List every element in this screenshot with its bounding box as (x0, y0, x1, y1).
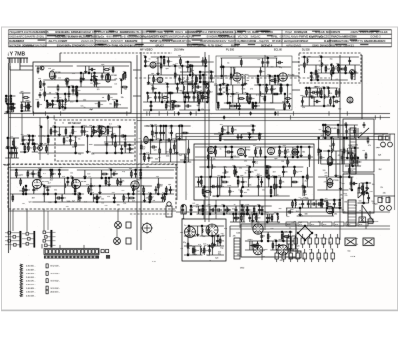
wire drop W345 (279, 177, 281, 187)
wire drop W61 (107, 73, 109, 80)
resistor R119 (255, 148, 257, 155)
wire rail W282 (185, 61, 214, 63)
wire rail W510 (230, 221, 245, 223)
node N295 (339, 207, 340, 208)
wire drop W419 (51, 170, 53, 178)
wire drop W452 (155, 186, 157, 194)
node N57 (29, 135, 30, 136)
wire drop W264 (176, 140, 178, 154)
resistor R163 (140, 170, 142, 177)
wire drop W372 (335, 151, 337, 177)
capacitor C155 (276, 244, 283, 247)
capacitor C143 (210, 208, 217, 211)
node N180 (275, 176, 276, 177)
wire drop W343 (275, 177, 277, 196)
wire drop W93 (100, 127, 102, 136)
capacitor C47 (231, 91, 234, 97)
vacuum tube V20 (326, 206, 340, 214)
node N44 (99, 126, 100, 127)
coil pack (287, 236, 291, 249)
wire drop W112 (33, 144, 35, 152)
node N183 (283, 166, 284, 167)
node N76 (177, 83, 178, 84)
wire drop W84 (69, 136, 71, 145)
resistor R54 (173, 105, 180, 107)
wire drop W469 (241, 206, 243, 214)
capacitor C77 (166, 138, 173, 141)
capacitor C73 (150, 145, 157, 148)
wire drop W169 (217, 103, 219, 109)
wire drop W139 (174, 66, 176, 84)
resistor R131 (292, 151, 299, 153)
node N148 (222, 133, 223, 134)
inductor L23 (225, 170, 226, 174)
wire rail W28 (77, 65, 129, 67)
node N298 (304, 239, 305, 240)
node N65 (150, 109, 151, 110)
node N161 (215, 146, 216, 147)
wire drop W538 (321, 200, 323, 208)
wire drop W491 (217, 236, 219, 246)
node N77 (182, 65, 183, 66)
wire rail W496 (245, 249, 265, 251)
wire drop W170 (219, 85, 221, 94)
wire drop W13 (7, 138, 9, 148)
resistor R149 (20, 178, 22, 185)
capacitor C21 (81, 129, 84, 135)
wire main horizontal bus 1 (9, 113, 390, 115)
node N156 (201, 176, 202, 177)
resistor R50 (165, 102, 167, 109)
wire drop W312 (202, 187, 204, 196)
wire drop W486 (203, 246, 205, 255)
wire drop W423 (64, 178, 66, 194)
wire drop W492 (219, 236, 221, 246)
resistor R121 (265, 166, 272, 168)
resistor R125 (274, 183, 276, 190)
node N146 (184, 161, 185, 162)
wire rail W474 (200, 235, 224, 237)
wire rail W163 (214, 84, 245, 86)
capacitor C24 (105, 142, 108, 148)
wire drop W66 (120, 80, 122, 94)
resistor R81 (304, 61, 306, 68)
wire drop W386 (346, 148, 348, 158)
capacitor C168 (316, 202, 323, 205)
wire drop W328 (240, 187, 242, 196)
node N145 (181, 125, 182, 126)
wire drop W331 (248, 167, 250, 187)
node N139 (160, 125, 161, 126)
capacitor C8 (54, 74, 57, 80)
capacitor C82 (252, 127, 255, 133)
wire drop W462 (197, 206, 199, 214)
resistor R192 (326, 200, 328, 207)
wire rail W527 (286, 207, 342, 209)
wire drop W6 (8, 96, 10, 112)
node N17 (62, 100, 63, 101)
wire drop W438 (110, 170, 112, 178)
capacitor C56 (266, 60, 269, 66)
capacitor C186 (303, 253, 306, 259)
node N244 (133, 193, 134, 194)
wire drop W334 (255, 147, 257, 157)
node N104 (255, 102, 256, 103)
frame output stage box (343, 174, 374, 213)
wire drop W513 (235, 214, 237, 222)
capacitor C109 (332, 142, 335, 148)
resistor R171 (202, 206, 204, 213)
node N218 (25, 185, 26, 186)
vacuum tube V12 (268, 148, 275, 155)
wire rail W167 (221, 108, 275, 110)
wire drop W221 (325, 65, 327, 73)
node N236 (99, 185, 100, 186)
capacitor C29 (28, 137, 31, 143)
wire drop W349 (291, 177, 293, 187)
wire drop W96 (111, 127, 113, 145)
node N274 (275, 240, 276, 241)
capacitor C59 (288, 103, 291, 109)
transistor Q1 (40, 66, 44, 70)
node N282 (256, 213, 257, 214)
capacitor C41 (193, 95, 196, 101)
wire rail W73 (94, 144, 134, 146)
capacitor C150 (208, 248, 211, 254)
wire rail W1 (6, 95, 16, 97)
inductor L19 (185, 156, 186, 160)
inductor L9 (192, 73, 193, 77)
capacitor C114 (353, 129, 356, 135)
wire dashed link (130, 213, 172, 215)
wire drop W130 (160, 57, 162, 75)
node N203 (343, 137, 344, 138)
wire drop W175 (229, 103, 231, 109)
wire rail W270 (214, 133, 234, 135)
wire drop W482 (194, 246, 196, 255)
wire rail W160 (220, 66, 291, 68)
resistor R123 (268, 173, 270, 180)
capacitor C105 (319, 155, 322, 161)
node N150 (252, 125, 253, 126)
wire drop W348 (287, 157, 289, 167)
resistor R98 (170, 147, 172, 154)
wire rail W360 (323, 150, 349, 152)
node N51 (121, 152, 122, 153)
inductor L27 (353, 160, 354, 164)
node N258 (202, 213, 203, 214)
wire rail W27 (35, 65, 73, 67)
node N111 (277, 75, 278, 76)
capacitor C27 (127, 147, 134, 150)
wire rail W399 (10, 169, 69, 171)
node N2 (7, 103, 8, 104)
node N108 (267, 57, 268, 58)
wire drop W311 (200, 177, 202, 187)
wire rail W212 (337, 64, 360, 66)
resistor R116 (221, 181, 228, 183)
wire drop W541 (333, 200, 335, 208)
wire drop W276 (231, 126, 233, 134)
jumper W544 (46, 271, 48, 275)
wire drop W83 (65, 127, 67, 136)
wire drop W498 (249, 241, 251, 250)
wire drop W467 (226, 206, 228, 214)
ground G19 (300, 154, 303, 157)
resistor R97 (159, 147, 161, 154)
resistor R71 (257, 77, 259, 84)
wire drop W470 (247, 206, 249, 214)
ground G6 (58, 133, 61, 136)
wire rail W214 (312, 79, 348, 81)
wire drop W319 (219, 177, 221, 196)
wire power bus (230, 225, 390, 227)
wire drop W49 (75, 87, 77, 94)
wire drop W226 (345, 65, 347, 73)
wire drop W191 (257, 76, 259, 85)
node N69 (161, 101, 162, 102)
wire drop W378 (348, 164, 350, 177)
node N118 (311, 72, 312, 73)
node N19 (65, 107, 66, 108)
resistor R49 (163, 58, 165, 65)
resistor R153 (74, 186, 76, 193)
wire drop W373 (337, 125, 339, 138)
node N71 (167, 83, 168, 84)
capacitor C17 (43, 81, 46, 87)
vacuum tube V16 (327, 179, 339, 188)
potentiometer R174 (141, 222, 153, 234)
wire drop W313 (204, 187, 206, 196)
wire rail W164 (254, 84, 292, 86)
wire drop W430 (88, 186, 90, 194)
resistor R78 (281, 86, 283, 93)
capacitor C176 (315, 238, 318, 244)
node N47 (107, 126, 108, 127)
node N252 (164, 193, 165, 194)
wire rail W300 (195, 146, 250, 148)
wire connector feeds (12, 209, 14, 231)
wire rail W361 (321, 163, 354, 165)
wire drop W111 (32, 136, 34, 144)
capacitor C173 (294, 238, 297, 244)
wire drop W431 (90, 178, 92, 194)
capacitor C5 (15, 150, 18, 156)
wire drop W371 (332, 138, 334, 151)
capacitor C162 (266, 215, 269, 221)
ground G30 (251, 219, 254, 222)
resistor R51 (167, 92, 174, 94)
resistor R55 (174, 71, 176, 78)
wire rail W309 (213, 195, 290, 197)
node N267 (188, 225, 189, 226)
node N147 (220, 139, 221, 140)
EHT cage cluster 2 (374, 195, 395, 197)
wire drop W16 (12, 138, 14, 148)
resistor R183 (272, 242, 274, 249)
wire drop W219 (317, 73, 319, 80)
node N10 (40, 86, 41, 87)
node N262 (223, 213, 224, 214)
wire drop W346 (282, 167, 284, 177)
resistor R132 (294, 168, 296, 175)
ground G26 (143, 199, 146, 202)
wire drop W460 (182, 206, 184, 214)
inductor L33 (201, 248, 202, 252)
wire drop W256 (155, 126, 157, 140)
wire drop W242 (327, 88, 329, 97)
capacitor C154 (260, 234, 263, 240)
resistor R36 (75, 141, 77, 148)
inductor L10 (201, 95, 202, 99)
capacitor C40 (187, 95, 190, 101)
node N294 (339, 199, 340, 200)
vacuum tube V13 (292, 149, 298, 155)
wire drop W151 (194, 75, 196, 93)
wire drop W439 (113, 194, 115, 202)
node N31 (116, 100, 117, 101)
capacitor C44 (219, 87, 222, 93)
wire drop W4 (5, 96, 7, 104)
wire drop W193 (260, 67, 262, 76)
ground G15 (175, 151, 178, 154)
wire drop W406 (12, 194, 14, 202)
wire drop W437 (108, 178, 110, 186)
inductor L12 (234, 69, 235, 73)
capacitor C89 (216, 184, 219, 190)
wire bottom bus (8, 210, 176, 212)
wire drop W465 (215, 206, 217, 214)
wire rail W475 (184, 245, 202, 247)
capacitor C52 (252, 103, 255, 109)
capacitor C190 (331, 253, 334, 259)
node N169 (237, 176, 238, 177)
vacuum tube V19 (131, 181, 139, 189)
wire drop W181 (238, 103, 240, 109)
wire drop W318 (217, 177, 219, 196)
wire drop W507 (289, 232, 291, 250)
enclosure box J4 (299, 53, 361, 83)
resistor R59 (198, 98, 200, 105)
resistor R118 (237, 178, 239, 185)
wire drop W24 (24, 102, 26, 111)
node N129 (321, 96, 322, 97)
capacitor C187 (310, 253, 313, 259)
vacuum tube V5 (157, 77, 163, 83)
wire drop W516 (246, 206, 248, 214)
resistor R58 (196, 76, 198, 83)
node N121 (321, 56, 322, 57)
wire drop W265 (178, 126, 180, 140)
capacitor C91 (225, 150, 232, 153)
node N85 (198, 109, 199, 110)
resistor R159 (117, 178, 119, 185)
node N59 (32, 143, 33, 144)
wire drop W449 (144, 194, 146, 202)
wire drop W425 (72, 178, 74, 186)
wire drop W53 (85, 66, 87, 73)
wire drop W18 (15, 148, 17, 158)
inductor L34 (202, 229, 203, 233)
wire drop W9 (13, 104, 15, 112)
resistor R191 (320, 200, 322, 207)
vacuum tube V8 (347, 97, 353, 103)
wire drop W539 (326, 200, 328, 208)
capacitor C132 (90, 183, 93, 189)
wire drop W290 (185, 92, 187, 102)
header parts table (9, 29, 392, 31)
wire drop W47 (68, 87, 70, 101)
wire drop W332 (249, 167, 251, 177)
capacitor C25 (119, 134, 126, 137)
capacitor C144 (215, 208, 222, 211)
node N192 (309, 146, 310, 147)
node N245 (135, 169, 136, 170)
ground G7 (86, 150, 89, 153)
wire drop W258 (160, 126, 162, 140)
wire rail W166 (224, 102, 289, 104)
node N8 (11, 147, 12, 148)
wire drop W243 (329, 97, 331, 106)
node N181 (279, 146, 280, 147)
resistor R82 (315, 69, 317, 76)
wire drop W80 (54, 127, 56, 136)
resistor R30 (46, 145, 48, 152)
capacitor C54 (259, 69, 262, 75)
node N125 (345, 72, 346, 73)
capacitor C115 (345, 122, 348, 128)
resistor R95 (144, 154, 146, 161)
wire drop W8 (11, 104, 13, 112)
wire drop W55 (90, 73, 92, 80)
resistor R83 (325, 65, 327, 72)
wire drop W532 (299, 208, 301, 216)
wire drop W321 (224, 167, 226, 177)
wire drop W388 (352, 158, 354, 166)
resistor R124 (270, 188, 272, 195)
convergence coil L35 (185, 227, 196, 238)
resistor R64 (217, 102, 219, 109)
wire rail W102 (22, 135, 36, 137)
capacitor C61 (316, 74, 319, 80)
node N266 (187, 254, 188, 255)
capacitor C43 (202, 59, 205, 65)
node N190 (302, 176, 303, 177)
node N132 (328, 87, 329, 88)
node N281 (246, 213, 247, 214)
capacitor C81 (248, 134, 251, 140)
node N41 (87, 135, 88, 136)
wire rail W497 (270, 249, 294, 251)
wire drop W515 (243, 206, 245, 222)
wire drop W155 (202, 57, 204, 66)
node N135 (144, 153, 145, 154)
wire drop W132 (163, 57, 165, 66)
wire mid band bend (175, 134, 177, 143)
connector J1 pinout (20, 231, 22, 248)
wire rail W33 (51, 100, 106, 102)
wire rail W283 (180, 71, 191, 73)
wire rail W385 (355, 165, 361, 167)
ground G10 (181, 81, 184, 84)
node N99 (229, 102, 230, 103)
node N13 (57, 93, 58, 94)
node N231 (74, 193, 75, 194)
node N226 (55, 201, 56, 202)
node N117 (304, 56, 305, 57)
wire drop W203 (277, 76, 279, 85)
wire vertical bus x=141 (140, 52, 142, 250)
